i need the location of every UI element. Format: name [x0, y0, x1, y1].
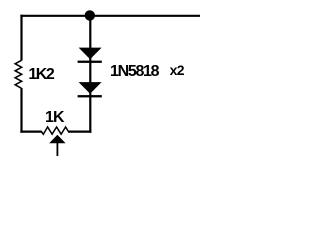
svg-text:1K: 1K	[45, 109, 65, 126]
svg-text:1K2: 1K2	[28, 66, 54, 83]
svg-text:1N5818: 1N5818	[110, 63, 160, 80]
node junction dot	[85, 10, 95, 20]
wire middle vertical	[89, 15, 91, 133]
diode D2	[78, 82, 102, 97]
wire bottom horizontal right	[68, 131, 91, 133]
value label x2	[170, 62, 185, 78]
potentiometer wiper arrow	[49, 135, 65, 156]
wire left vertical upper	[20, 15, 22, 61]
value label 1K	[45, 109, 65, 126]
wire left vertical lower	[20, 88, 22, 133]
resistor R1 zigzag	[15, 60, 22, 88]
value label 1K2	[28, 66, 54, 83]
svg-text:x2: x2	[170, 62, 185, 78]
value label 1N5818	[110, 63, 160, 80]
potentiometer R2 zigzag	[41, 127, 68, 134]
wire bottom horizontal left	[20, 131, 41, 133]
diode D1	[78, 48, 102, 63]
wire top horizontal	[20, 15, 200, 17]
